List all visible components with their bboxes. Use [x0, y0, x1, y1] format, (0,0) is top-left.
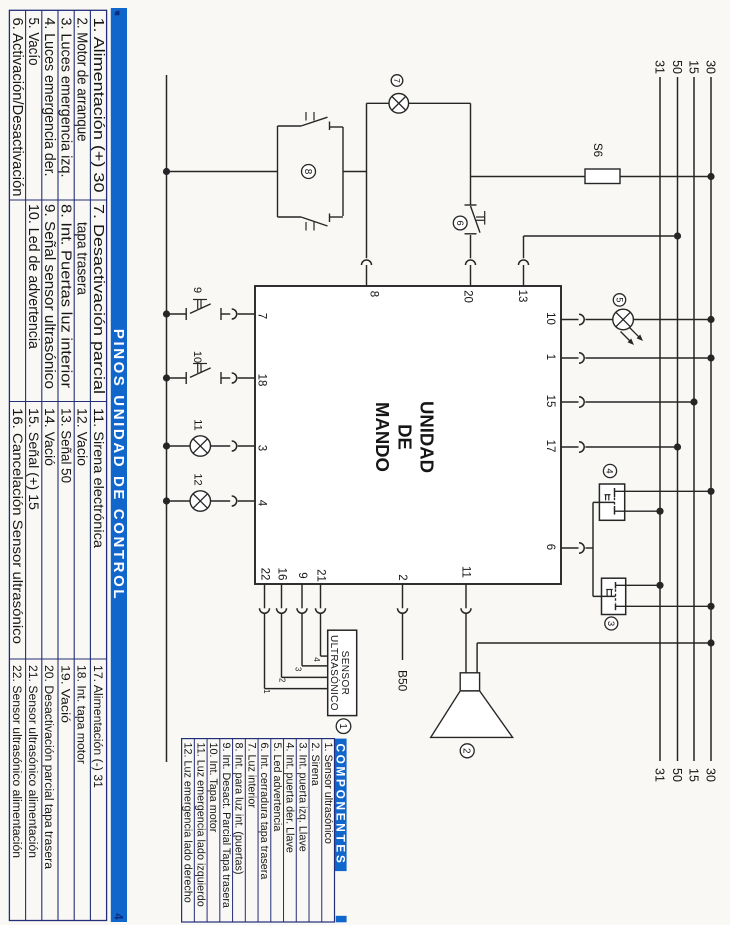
svg-text:15: 15 — [687, 60, 701, 74]
svg-text:1. Alimentación (+) 30: 1. Alimentación (+) 30 — [90, 18, 106, 193]
svg-text:3. Int. puerta izq. Llave: 3. Int. puerta izq. Llave — [296, 743, 308, 852]
svg-text:17: 17 — [544, 440, 556, 453]
svg-text:18. Int. tapa motor: 18. Int. tapa motor — [75, 665, 89, 764]
svg-text:tapa trasera: tapa trasera — [74, 222, 90, 296]
svg-text:9: 9 — [191, 287, 203, 293]
svg-text:10: 10 — [191, 351, 203, 363]
svg-text:9: 9 — [296, 572, 308, 578]
svg-text:17. Alimentación (-) 31: 17. Alimentación (-) 31 — [91, 665, 105, 788]
svg-text:21: 21 — [315, 569, 327, 582]
svg-text:6: 6 — [544, 544, 556, 550]
svg-text:18: 18 — [256, 374, 268, 387]
svg-text:9. Señal sensor ultrasónico: 9. Señal sensor ultrasónico — [41, 204, 57, 389]
svg-text:9. Int. Desact. Parcial Tapa t: 9. Int. Desact. Parcial Tapa trasera — [220, 743, 232, 908]
svg-text:15: 15 — [687, 768, 701, 782]
svg-text:4: 4 — [604, 468, 615, 473]
svg-text:2: 2 — [461, 748, 472, 754]
svg-text:SENSOR: SENSOR — [339, 651, 350, 696]
svg-text:1: 1 — [262, 689, 271, 693]
svg-text:31: 31 — [653, 60, 667, 74]
svg-text:50: 50 — [670, 60, 684, 74]
svg-text:21. Sensor ultrasónico aliment: 21. Sensor ultrasónico alimentación — [26, 665, 40, 858]
svg-text:13. Señal 50: 13. Señal 50 — [58, 408, 73, 483]
svg-text:31: 31 — [653, 768, 667, 782]
svg-text:20: 20 — [462, 290, 474, 303]
svg-text:22: 22 — [259, 568, 271, 581]
svg-text:8. Int. Puertas luz interior: 8. Int. Puertas luz interior — [57, 204, 73, 388]
svg-text:5. Vacío: 5. Vacío — [25, 18, 41, 66]
svg-text:11: 11 — [460, 566, 472, 578]
svg-text:50: 50 — [670, 768, 684, 782]
svg-text:6. Activación/Desactivación: 6. Activación/Desactivación — [9, 18, 25, 197]
svg-text:S6: S6 — [591, 143, 603, 157]
svg-text:1. Sensor ultrasónico: 1. Sensor ultrasónico — [322, 743, 334, 844]
svg-text:10. Int. Tapa motor: 10. Int. Tapa motor — [207, 743, 219, 833]
svg-text:22. Sensor ultrasónico aliment: 22. Sensor ultrasónico alimentación — [10, 665, 24, 858]
svg-text:11. Sirena electrónica: 11. Sirena electrónica — [91, 408, 106, 548]
svg-text:30: 30 — [704, 60, 718, 74]
svg-text:6. Int. cerradura tapa trasera: 6. Int. cerradura tapa trasera — [258, 743, 270, 880]
svg-text:2. Motor de arranque: 2. Motor de arranque — [74, 18, 90, 142]
svg-text:2: 2 — [278, 678, 287, 682]
svg-text:COMPONENTES: COMPONENTES — [334, 743, 348, 865]
svg-text:DE: DE — [395, 424, 416, 450]
svg-text:13: 13 — [516, 290, 528, 303]
svg-text:1: 1 — [544, 354, 556, 360]
svg-text:8: 8 — [368, 291, 380, 297]
svg-text:4: 4 — [256, 500, 268, 507]
svg-text:11. Luz emergencia lado izquie: 11. Luz emergencia lado izquierdo — [194, 743, 206, 907]
svg-text:4: 4 — [112, 913, 124, 920]
svg-text:MANDO: MANDO — [372, 402, 393, 472]
svg-text:16: 16 — [276, 568, 288, 581]
svg-text:2: 2 — [396, 574, 408, 580]
svg-text:7: 7 — [392, 78, 402, 83]
svg-text:4. Int. puerta der. Llave: 4. Int. puerta der. Llave — [284, 743, 296, 853]
svg-text:3. Luces emergencia izq.: 3. Luces emergencia izq. — [57, 18, 73, 178]
svg-text:7. Desactivación parcial: 7. Desactivación parcial — [90, 204, 106, 394]
svg-text:UNIDAD: UNIDAD — [417, 401, 438, 473]
svg-text:12. Vacio: 12. Vacio — [75, 408, 90, 466]
svg-text:12. Luz emergencia lado derech: 12. Luz emergencia lado derecho — [182, 743, 194, 903]
svg-text:B50: B50 — [396, 670, 410, 692]
svg-text:11: 11 — [192, 419, 204, 430]
svg-text:8. Int. para luz int. (puertas: 8. Int. para luz int. (puertas) — [233, 743, 245, 875]
svg-text:PINOS UNIDAD DE CONTROL: PINOS UNIDAD DE CONTROL — [110, 329, 127, 601]
svg-text:12: 12 — [192, 473, 204, 485]
svg-text:10: 10 — [544, 312, 556, 325]
svg-text:10. Led de advertencia: 10. Led de advertencia — [25, 204, 41, 350]
svg-text:3: 3 — [256, 445, 268, 451]
svg-text:20. Desactivación parcial tapa: 20. Desactivación parcial tapa trasera — [42, 665, 56, 869]
svg-text:7: 7 — [256, 313, 268, 319]
svg-text:7. Luz interior: 7. Luz interior — [245, 743, 257, 809]
svg-text:8: 8 — [302, 169, 313, 175]
svg-text:4. Luces emergencia der.: 4. Luces emergencia der. — [41, 18, 57, 177]
svg-text:14. Vació: 14. Vació — [42, 408, 57, 466]
svg-text:19. Vació: 19. Vació — [58, 665, 72, 723]
svg-text:4: 4 — [312, 657, 321, 662]
svg-text:15: 15 — [544, 395, 556, 408]
svg-text:15. Señal (+) 15: 15. Señal (+) 15 — [26, 408, 41, 510]
svg-text:16. Cancelación Sensor ultrasó: 16. Cancelación Sensor ultrasónico — [10, 408, 25, 644]
svg-text:5: 5 — [614, 297, 624, 302]
svg-text:30: 30 — [704, 768, 718, 782]
svg-text:1: 1 — [337, 723, 348, 729]
svg-text:5. Led advertencia: 5. Led advertencia — [271, 743, 283, 832]
svg-text:2. Sirena: 2. Sirena — [309, 743, 321, 786]
svg-text:6: 6 — [454, 220, 465, 225]
svg-text:3: 3 — [294, 667, 303, 671]
svg-text:3: 3 — [605, 621, 616, 626]
